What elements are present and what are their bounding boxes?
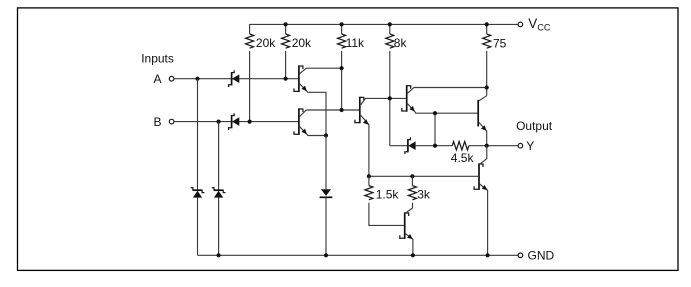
svg-text:CC: CC	[537, 22, 550, 32]
svg-text:Inputs: Inputs	[141, 52, 174, 66]
svg-text:11k: 11k	[346, 36, 365, 50]
svg-text:Y: Y	[526, 139, 534, 153]
svg-text:75: 75	[493, 36, 507, 50]
svg-text:1.5k: 1.5k	[376, 188, 400, 202]
svg-text:3k: 3k	[417, 188, 431, 202]
svg-text:20k: 20k	[256, 36, 276, 50]
svg-text:20k: 20k	[292, 36, 312, 50]
svg-text:8k: 8k	[394, 36, 408, 50]
svg-text:A: A	[154, 72, 162, 86]
svg-text:GND: GND	[528, 249, 555, 263]
svg-text:V: V	[528, 16, 537, 31]
svg-text:Output: Output	[516, 119, 553, 133]
svg-text:4.5k: 4.5k	[451, 151, 475, 165]
svg-text:B: B	[154, 115, 162, 129]
